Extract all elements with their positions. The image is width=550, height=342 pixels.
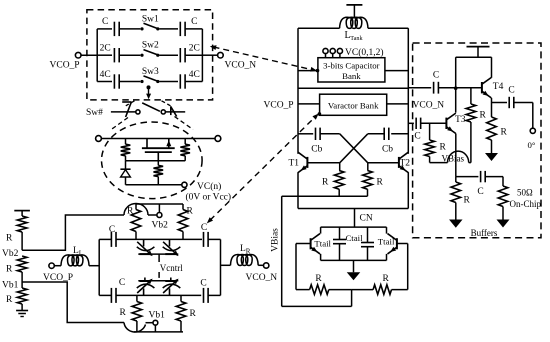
wire varactor tops join bbox=[138, 253, 178, 255]
svg-text:R: R bbox=[246, 248, 251, 256]
wire VBias bottom run bbox=[282, 305, 352, 307]
terminal circle Sw# left bbox=[136, 110, 140, 114]
label Sw1 bbox=[142, 14, 159, 24]
wire hop under resistor lead (bottom) bbox=[124, 323, 146, 333]
wire row 2 to switch bbox=[119, 54, 140, 56]
label C row 1 bbox=[102, 17, 108, 27]
dashed funnel box-to-Sw# bbox=[126, 101, 171, 106]
label R (VBias) bbox=[440, 143, 447, 153]
wire Cb right to node bbox=[368, 133, 384, 135]
svg-text:VC(0,1,2): VC(0,1,2) bbox=[345, 47, 384, 58]
label VCO_P (main box) bbox=[264, 101, 294, 111]
supply bar of bias chain bbox=[14, 210, 30, 212]
varactor V2 (top-right) bbox=[163, 239, 181, 256]
resistor R (VBias) bbox=[425, 123, 435, 162]
main box bottom edge bbox=[298, 208, 408, 210]
wire varactor bottoms join bbox=[138, 280, 178, 282]
resistor R tail left bbox=[296, 285, 352, 295]
label R right of pair bbox=[377, 178, 384, 188]
label R bias2 bbox=[6, 265, 13, 275]
wire Cb left to node bbox=[320, 133, 340, 135]
capacitor C (T4 coupling) bbox=[434, 82, 439, 94]
resistor R bottom-left of module bbox=[132, 295, 142, 332]
svg-text:VCO_N: VCO_N bbox=[246, 273, 278, 283]
wire T4 emitter to out cap bbox=[492, 102, 508, 104]
wire left tail drop bbox=[295, 244, 297, 290]
resistor R (T1 base bias) bbox=[334, 163, 344, 196]
main box right edge bbox=[407, 28, 409, 153]
label VCO_N (module) bbox=[246, 273, 278, 283]
ground under 50 Ohm bbox=[497, 220, 510, 228]
wire row 1 left segment bbox=[97, 28, 112, 30]
wire Vb2 stub bbox=[158, 204, 160, 213]
label R bottom-right bbox=[190, 309, 197, 319]
resistor R (T2 base bias) bbox=[363, 163, 373, 196]
svg-text:C: C bbox=[433, 71, 439, 81]
svg-text:R: R bbox=[6, 265, 13, 275]
label R bias3 bbox=[6, 295, 13, 305]
wire bias resistors bottom rail bbox=[282, 195, 368, 197]
wire row 2 right segment bbox=[185, 54, 202, 56]
wire Ttail right base bbox=[397, 243, 408, 245]
svg-text:2C: 2C bbox=[189, 44, 200, 54]
terminal circle VC(n) bbox=[182, 182, 187, 187]
resistor R mid of bias chain bbox=[17, 256, 27, 282]
wire top row left bbox=[99, 238, 112, 240]
switch Sw1 bbox=[140, 23, 159, 30]
wire right bus of module bbox=[220, 239, 222, 295]
wire left bus of module bbox=[98, 239, 100, 295]
label Ttail left bbox=[314, 238, 331, 248]
wire Vb1 feed bbox=[22, 282, 124, 323]
block: 3-bits Capacitor Bank bbox=[318, 58, 385, 82]
svg-text:R: R bbox=[127, 207, 134, 217]
resistor R top-left of module bbox=[131, 204, 141, 239]
capacitor 2C (left, row 2) bbox=[114, 48, 119, 62]
capacitor Cb right bbox=[384, 128, 389, 140]
label VC(n) bbox=[197, 181, 221, 192]
label Buffers bbox=[471, 228, 498, 238]
capacitor C bottom-right bbox=[204, 288, 209, 303]
terminal circle Vb2 bbox=[157, 213, 162, 218]
capacitor Cb left bbox=[316, 128, 321, 140]
svg-text:R: R bbox=[377, 178, 384, 188]
switch Sw3 bbox=[140, 76, 159, 83]
wire T1 collector stub bbox=[297, 152, 299, 155]
resistor R bottom-right of module bbox=[176, 295, 186, 332]
svg-text:Sw3: Sw3 bbox=[142, 67, 159, 77]
svg-text:C: C bbox=[119, 278, 125, 288]
wire T2 emitter to box bottom bbox=[407, 172, 409, 208]
wire Ttail left base bbox=[296, 243, 311, 245]
label R tail left bbox=[315, 274, 322, 284]
wire bottom of switch cell bbox=[126, 184, 182, 186]
label VBias (rotated) bbox=[271, 228, 281, 252]
wire T3 emitter rail bbox=[456, 176, 479, 178]
label 2C row 2 bbox=[189, 44, 200, 54]
svg-text:Tank: Tank bbox=[350, 35, 363, 42]
label VCO_N bbox=[225, 61, 257, 71]
label 0 deg bbox=[528, 140, 536, 150]
svg-text:Cb: Cb bbox=[311, 145, 322, 155]
label C top-left bbox=[109, 225, 115, 235]
label Cb right bbox=[382, 145, 393, 155]
capacitor C (T3 coupling) bbox=[416, 118, 421, 129]
svg-text:R: R bbox=[440, 143, 447, 153]
wire row 3 left segment bbox=[97, 81, 112, 83]
label VBias (buffers) bbox=[442, 153, 465, 163]
svg-text:4C: 4C bbox=[100, 70, 111, 80]
wire hop to bias resistor bbox=[469, 162, 471, 164]
break mark left (7-shape) bbox=[122, 102, 131, 117]
wire bottom row bbox=[116, 294, 201, 296]
label VCO_P bbox=[50, 61, 80, 71]
wire top row bbox=[116, 238, 202, 240]
resistor 50 Ohm on-chip bbox=[498, 186, 508, 220]
dashed ellipse: switch detail bbox=[102, 122, 203, 199]
capacitor Ctail left half bbox=[333, 227, 346, 260]
wire: right bus of capacitor array bbox=[201, 29, 203, 82]
diode D1 bbox=[120, 161, 130, 185]
svg-text:C: C bbox=[109, 225, 115, 235]
svg-text:Ttail: Ttail bbox=[314, 238, 331, 248]
svg-text:T2: T2 bbox=[400, 158, 411, 168]
label LTank bbox=[345, 30, 364, 42]
svg-text:VCO_N: VCO_N bbox=[225, 61, 257, 71]
wire cap to load bbox=[485, 177, 503, 186]
inductor LR bbox=[231, 254, 259, 265]
svg-text:R: R bbox=[120, 308, 127, 318]
wire bottom row left bbox=[99, 294, 111, 296]
svg-text:Vb2: Vb2 bbox=[152, 221, 169, 231]
wire Vb1 stub bbox=[154, 325, 156, 332]
svg-text:Bank: Bank bbox=[342, 71, 361, 81]
svg-text:R: R bbox=[464, 196, 471, 206]
label R (follower load) bbox=[464, 196, 471, 206]
wire LL to left bus bbox=[89, 265, 99, 267]
wire cross-couple right-to-left bbox=[340, 134, 368, 163]
svg-text:50Ω: 50Ω bbox=[517, 188, 533, 198]
wire top row right bbox=[208, 238, 220, 240]
label 4C row 3 bbox=[100, 70, 111, 80]
label R bottom-left bbox=[120, 308, 127, 318]
wire T1 emitter to box bottom bbox=[297, 172, 299, 208]
svg-text:R: R bbox=[383, 274, 390, 284]
wire Sw# left bbox=[111, 111, 136, 113]
label LR bbox=[240, 244, 251, 256]
label VCO_P (module) bbox=[43, 273, 73, 283]
transistor Ttail left bbox=[311, 227, 321, 260]
wire array to VCO_N bbox=[202, 54, 217, 56]
label 2C row 2 bbox=[100, 44, 111, 54]
label 4C row 3 bbox=[189, 70, 200, 80]
wire tail box top bbox=[321, 226, 387, 228]
wire hop over resistor lead (top) bbox=[124, 204, 148, 216]
svg-text:2C: 2C bbox=[100, 44, 111, 54]
capacitor C top-right bbox=[204, 232, 209, 247]
node Vcntrl bbox=[159, 254, 183, 278]
wire cap to T4 base bbox=[438, 87, 482, 89]
label R (T4 load) bbox=[501, 128, 508, 138]
wire cap to T3 base bbox=[421, 122, 447, 124]
wire varactor bank to right edge bbox=[387, 103, 409, 105]
supply bar VDD (buffers) bbox=[467, 47, 490, 58]
ground of bias chain bbox=[16, 311, 28, 317]
ground under T4 load bbox=[485, 153, 498, 161]
wire Vb2 feed bbox=[22, 215, 124, 250]
svg-text:L: L bbox=[79, 250, 83, 258]
wire supply rail bbox=[456, 56, 492, 58]
wire right edge to Cb bbox=[391, 133, 408, 135]
wire top of switch cell bbox=[101, 138, 215, 140]
wire VCO_N to coupling cap bbox=[408, 122, 414, 124]
capacitor 4C (left, row 3) bbox=[114, 74, 119, 88]
resistor R top of bias chain bbox=[17, 211, 27, 251]
svg-text:Cb: Cb bbox=[382, 145, 393, 155]
wire: left bus of capacitor array bbox=[96, 29, 98, 82]
terminal circle Vb1 bbox=[153, 320, 158, 325]
inductor LL bbox=[61, 255, 89, 266]
label R (T4 base bias) bbox=[480, 111, 487, 121]
switch arm Sw# bbox=[142, 103, 160, 111]
terminal circle right of switch cell bbox=[215, 136, 221, 142]
label C (T4 coupling) bbox=[433, 71, 439, 81]
switch Sw2 bbox=[140, 50, 159, 57]
svg-text:(0V or Vcc): (0V or Vcc) bbox=[186, 191, 232, 202]
wire left edge to capacitor bank bbox=[298, 70, 318, 72]
wire T2 collector stub bbox=[407, 152, 409, 155]
dashed leader: varactor module to Varactor Bank bbox=[207, 112, 321, 223]
svg-text:Buffers: Buffers bbox=[471, 228, 498, 238]
capacitor C top-left bbox=[111, 232, 116, 247]
dashed funnel Sw#-to-ellipse bbox=[111, 117, 194, 131]
terminal circle Sw# right bbox=[161, 110, 165, 114]
svg-text:Sw#: Sw# bbox=[86, 108, 103, 118]
label Ctail bbox=[345, 233, 363, 243]
wire VCO_P to array bbox=[81, 54, 97, 56]
label Sw# bbox=[86, 108, 103, 118]
label C (output) bbox=[508, 86, 514, 96]
wire VCO tap to coupling cap bbox=[408, 87, 431, 89]
transistor T2 bbox=[399, 152, 408, 172]
svg-text:VCO_N: VCO_N bbox=[413, 101, 445, 111]
label C (T3 coupling) bbox=[414, 131, 420, 141]
capacitor C (output) bbox=[509, 97, 514, 108]
terminal circle VCO_P (module) bbox=[49, 263, 54, 268]
svg-text:C: C bbox=[414, 131, 420, 141]
wire bottom rail of module bbox=[134, 331, 183, 333]
wire row 3 from switch bbox=[159, 81, 178, 83]
svg-text:R: R bbox=[315, 274, 322, 284]
wire right tail drop bbox=[407, 244, 409, 290]
svg-text:R: R bbox=[190, 309, 197, 319]
wire VBias vertical bbox=[281, 196, 283, 306]
varactor V1 (top-left) bbox=[137, 239, 155, 256]
label VC(0,1,2) bbox=[345, 47, 384, 58]
svg-text:Ttail: Ttail bbox=[378, 236, 395, 246]
svg-text:Sw1: Sw1 bbox=[142, 14, 159, 24]
node Vb2 label bbox=[2, 249, 19, 259]
label T1 bbox=[289, 159, 300, 169]
wire VBias up to tail resistors bbox=[351, 290, 353, 307]
ground of tail box bbox=[347, 260, 361, 280]
capacitor C bottom-left bbox=[111, 288, 116, 303]
wire hop over T3 emitter bbox=[448, 151, 469, 163]
resistor R (T4 emitter load) bbox=[487, 117, 497, 153]
svg-text:T3: T3 bbox=[455, 115, 466, 125]
resistor R tail right bbox=[352, 285, 408, 295]
svg-text:C: C bbox=[200, 279, 206, 289]
wire left edge to varactor bank bbox=[298, 103, 320, 105]
wire mid rail of main box bbox=[298, 87, 408, 89]
terminal circle left of switch cell bbox=[96, 136, 102, 142]
svg-text:C: C bbox=[191, 17, 197, 27]
label LL bbox=[73, 246, 83, 258]
capacitor C (right, row 1) bbox=[180, 22, 185, 36]
label Cb left bbox=[311, 145, 322, 155]
break mark right bbox=[171, 106, 177, 116]
label R left of pair bbox=[322, 178, 329, 188]
label Sw3 bbox=[142, 67, 159, 77]
node CN stub bbox=[354, 209, 356, 228]
svg-text:VC(n): VC(n) bbox=[197, 181, 221, 192]
capacitor Ctail right half bbox=[361, 227, 374, 260]
label R top-right bbox=[187, 207, 194, 217]
wire T2 base bbox=[368, 162, 399, 164]
svg-text:Vb1: Vb1 bbox=[149, 311, 166, 321]
label C top-right bbox=[201, 223, 207, 233]
capacitor C (left, row 1) bbox=[114, 22, 119, 36]
label Vb1 terminal bbox=[149, 311, 166, 321]
svg-text:VCO_P: VCO_P bbox=[264, 101, 294, 111]
wire right bus to inductor LR bbox=[221, 264, 231, 266]
label 50 Ohm bbox=[517, 188, 533, 198]
label T3 bbox=[455, 115, 466, 125]
label (0V or Vcc) bbox=[186, 191, 232, 202]
svg-text:3-bits Capacitor: 3-bits Capacitor bbox=[323, 60, 380, 70]
svg-text:VBias: VBias bbox=[442, 153, 465, 163]
dashed leader: capacitor array to 3-bits bank bbox=[210, 45, 320, 72]
wire row 2 from switch bbox=[159, 54, 178, 56]
main box top edge with LTank gap bbox=[298, 27, 408, 29]
wire VBias run bbox=[430, 162, 448, 164]
resistor left in switch cell bbox=[121, 139, 131, 161]
label C (output 2) bbox=[477, 187, 483, 197]
wire row 3 right segment bbox=[185, 81, 202, 83]
resistor right in switch cell bbox=[180, 139, 190, 161]
svg-text:Ctail: Ctail bbox=[345, 233, 363, 243]
svg-text:R: R bbox=[6, 295, 13, 305]
block: Varactor Bank bbox=[320, 94, 387, 115]
terminal VCO_P of capacitor array bbox=[75, 52, 81, 58]
main box left edge bbox=[297, 28, 299, 153]
wire cross-couple left-to-right bbox=[340, 134, 368, 163]
resistor R (emitter follower load) bbox=[451, 177, 461, 220]
label On-Chip bbox=[510, 199, 542, 209]
svg-text:C: C bbox=[508, 86, 514, 96]
linkage dot and arrow from Sw3 bbox=[146, 85, 151, 99]
wire row 3 to switch bbox=[119, 81, 140, 83]
transistor Ttail right bbox=[387, 227, 397, 260]
wire supply to T4 collector bbox=[491, 57, 493, 78]
wire T3 emitter down bbox=[455, 134, 457, 177]
label Vb2 terminal bbox=[152, 221, 169, 231]
label CN bbox=[360, 214, 373, 224]
wire row 1 to switch bbox=[119, 28, 140, 30]
transistor T1 bbox=[298, 152, 307, 172]
svg-text:Sw2: Sw2 bbox=[142, 41, 159, 51]
svg-text:T1: T1 bbox=[289, 159, 300, 169]
svg-text:T4: T4 bbox=[493, 82, 504, 92]
label T4 bbox=[493, 82, 504, 92]
svg-text:C: C bbox=[477, 187, 483, 197]
resistor center (gate bias) bbox=[154, 161, 164, 185]
svg-text:Varactor Bank: Varactor Bank bbox=[328, 100, 379, 110]
svg-text:R: R bbox=[187, 207, 194, 217]
transistor T4 bbox=[482, 78, 491, 98]
transistor M1 (switch MOSFET) bbox=[142, 139, 175, 161]
svg-text:R: R bbox=[480, 111, 487, 121]
svg-text:On-Chip: On-Chip bbox=[510, 199, 542, 209]
resistor R bottom of bias chain bbox=[17, 282, 27, 311]
supply bar VDD (tank) bbox=[346, 5, 362, 18]
wire feed to Vb1 terminal bbox=[146, 322, 153, 324]
terminal circle 0 deg bbox=[530, 128, 535, 133]
wire row 1 right segment bbox=[185, 28, 202, 30]
terminal VCO_N of capacitor array bbox=[218, 52, 224, 58]
svg-text:R: R bbox=[322, 178, 329, 188]
label T2 bbox=[400, 158, 411, 168]
wire bottom row right bbox=[208, 294, 220, 296]
wire to inductor LL bbox=[54, 265, 61, 267]
svg-text:VCO_P: VCO_P bbox=[50, 61, 80, 71]
svg-text:Vcntrl: Vcntrl bbox=[160, 263, 183, 273]
label Sw2 bbox=[142, 41, 159, 51]
svg-text:Vb2: Vb2 bbox=[2, 249, 19, 259]
wire tail box bottom bbox=[321, 259, 387, 261]
wire top rail of varactor module bbox=[136, 203, 183, 205]
junction dot at T4 base rail bbox=[454, 86, 458, 90]
wire LR to VCO_N terminal bbox=[258, 264, 263, 266]
wire capacitor bank to right edge bbox=[385, 70, 408, 72]
svg-text:C: C bbox=[201, 223, 207, 233]
label VCO_N (main box) bbox=[413, 101, 445, 111]
wire left edge to Cb bbox=[298, 133, 313, 135]
label R tail right bbox=[383, 274, 390, 284]
resistor R (T4 base bias) bbox=[466, 88, 476, 163]
label Ttail right bbox=[378, 236, 395, 246]
label C bottom-left bbox=[119, 278, 125, 288]
resistor R top-right of module bbox=[178, 204, 188, 239]
transistor T3 bbox=[446, 113, 455, 133]
wire T1 base bbox=[307, 162, 339, 164]
svg-text:R: R bbox=[501, 128, 508, 138]
wire feed to Vb2 terminal bbox=[148, 214, 157, 216]
svg-text:4C: 4C bbox=[189, 70, 200, 80]
label C row 1 bbox=[191, 17, 197, 27]
svg-text:0°: 0° bbox=[528, 140, 536, 150]
wire out cap to terminal bbox=[514, 103, 533, 129]
dashed box: switched capacitor array detail bbox=[87, 10, 213, 100]
label R bias1 bbox=[6, 234, 13, 244]
wire T4 emitter down bbox=[491, 98, 493, 117]
dashed box: Buffers bbox=[413, 43, 541, 238]
varactor V4 (bottom-right) bbox=[163, 278, 181, 296]
wire row 2 left segment bbox=[97, 54, 112, 56]
wire supply to T3 collector bbox=[455, 57, 457, 112]
inductor LTank bbox=[340, 17, 368, 28]
capacitor 4C (right, row 3) bbox=[180, 74, 185, 88]
